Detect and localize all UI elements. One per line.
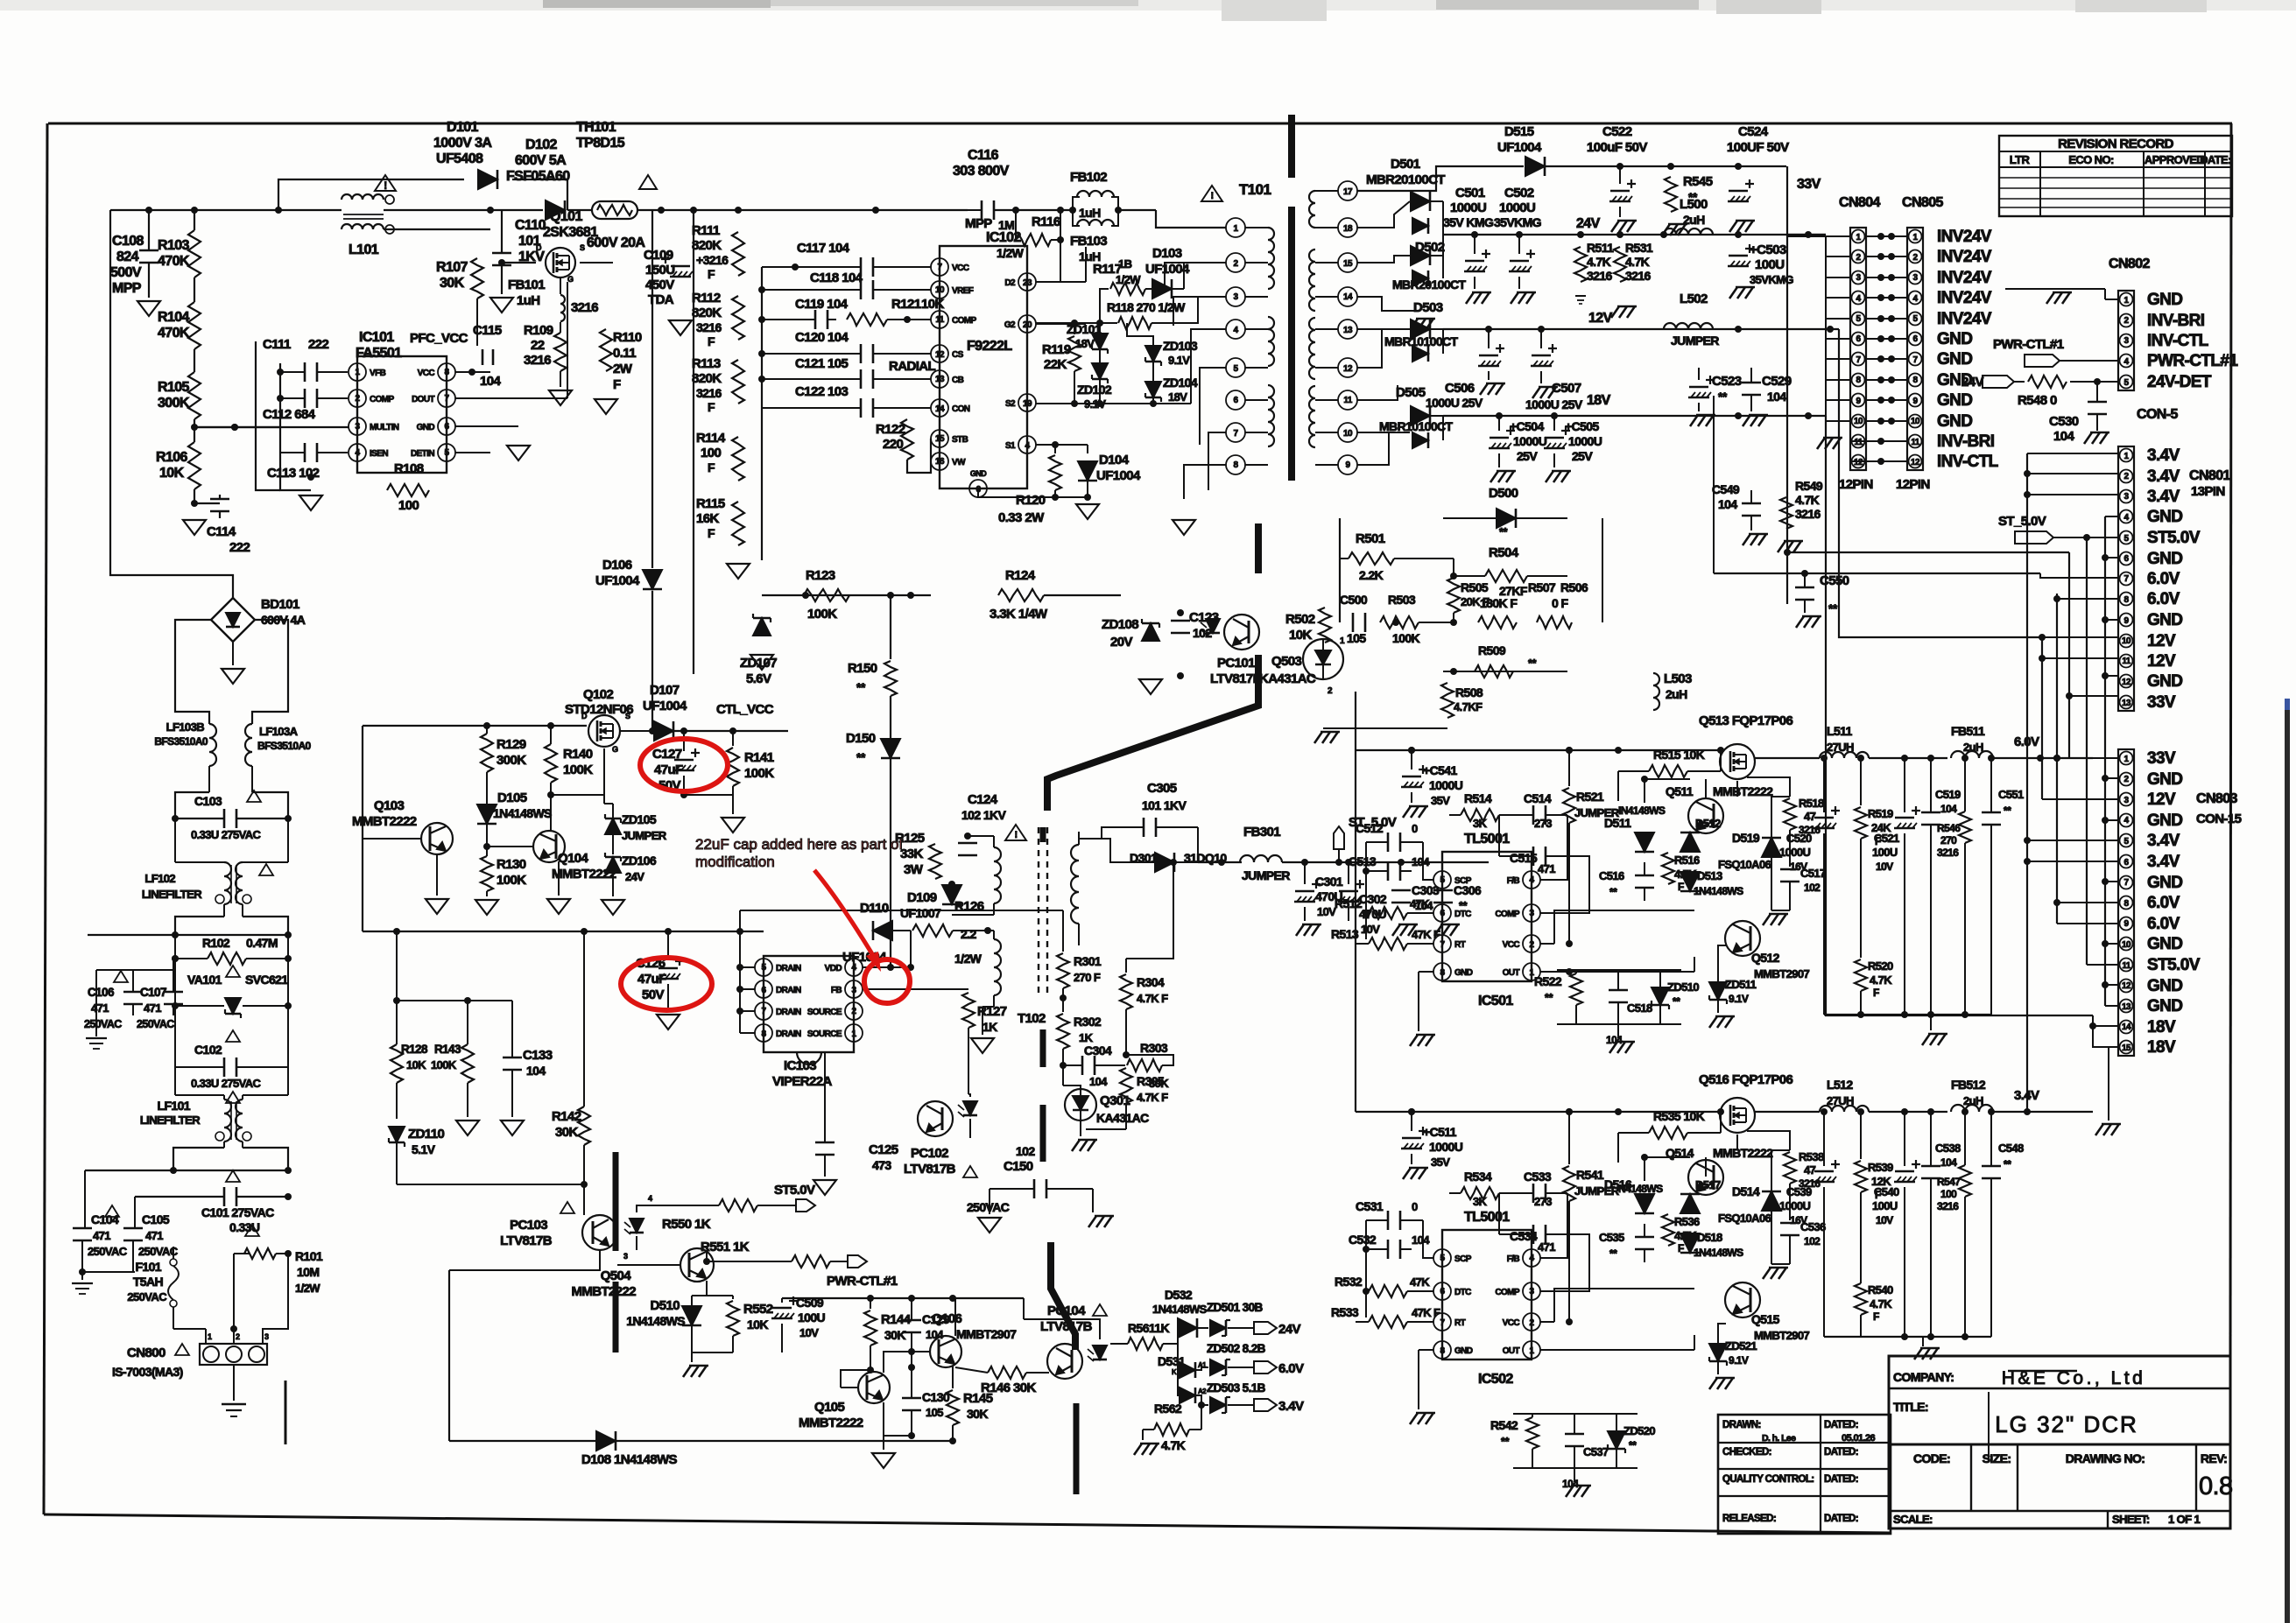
svg-text:R549: R549: [1795, 479, 1823, 493]
svg-text:C548: C548: [1998, 1142, 2024, 1155]
svg-text:3.4V: 3.4V: [1278, 1399, 1304, 1414]
wire S2 row: [1036, 400, 1191, 407]
svg-text:F: F: [613, 377, 621, 392]
svg-text:0.8: 0.8: [2199, 1472, 2233, 1500]
svg-text:R105: R105: [158, 380, 190, 395]
svg-text:INV-BRI: INV-BRI: [1937, 432, 1995, 451]
svg-text:12: 12: [1854, 458, 1863, 467]
svg-text:1KV: 1KV: [518, 249, 545, 264]
capacitor C130 105: [902, 1367, 950, 1436]
svg-text:**: **: [856, 680, 866, 694]
resistor R534 3K: [1449, 1170, 1499, 1208]
resistor R513 47K F: [1331, 927, 1440, 950]
svg-text:C520: C520: [1786, 832, 1812, 845]
svg-text:25V: 25V: [1572, 449, 1593, 463]
svg-text:C524: C524: [1738, 124, 1769, 139]
svg-text:104: 104: [1412, 1233, 1430, 1247]
transformer T102 secondary: [1071, 832, 1079, 945]
svg-text:LTV817B: LTV817B: [904, 1162, 956, 1177]
svg-text:Q515: Q515: [1751, 1312, 1780, 1326]
svg-text:100U: 100U: [1755, 257, 1784, 272]
ground T101 pin14: [1410, 311, 1435, 330]
svg-text:R542: R542: [1490, 1418, 1518, 1432]
wire BD legs: [175, 620, 288, 724]
svg-text:G2: G2: [1004, 320, 1016, 330]
svg-text:**: **: [1718, 390, 1728, 404]
svg-text:MPP: MPP: [965, 216, 992, 231]
svg-text:1 OF 1: 1 OF 1: [2168, 1513, 2201, 1526]
svg-text:R562: R562: [1154, 1402, 1182, 1416]
svg-text:R110: R110: [613, 330, 642, 345]
svg-text:C302: C302: [1359, 892, 1387, 906]
IC IC103 VIPER22A: [755, 956, 863, 1089]
inductor FB101 1uH: [508, 278, 598, 333]
wire Q504 collector: [703, 1250, 710, 1265]
svg-text:DRAIN: DRAIN: [776, 964, 801, 973]
CN803 label 18V pin15: [2147, 1038, 2176, 1057]
resistor R501 2.2K: [1340, 518, 1454, 622]
svg-text:R508: R508: [1455, 685, 1483, 699]
svg-text:R518: R518: [1799, 797, 1824, 810]
diode D515 UF1004: [1497, 124, 1623, 176]
svg-text:R521: R521: [1576, 790, 1604, 804]
svg-text:16: 16: [935, 457, 945, 467]
svg-text:BFS3510A0: BFS3510A0: [257, 740, 312, 752]
svg-text:ECO NO:: ECO NO:: [2068, 153, 2114, 166]
wire T101 pin17 top rail: [1357, 190, 1436, 192]
svg-text:102: 102: [1804, 1235, 1821, 1247]
svg-text:47uF: 47uF: [654, 762, 683, 777]
label N4148WS Q514 area: [1618, 1183, 1663, 1195]
svg-text:1N4148WS: 1N4148WS: [1152, 1303, 1208, 1316]
svg-text:G: G: [567, 275, 574, 284]
wire 18V vertical: [1826, 416, 2118, 1047]
svg-text:COMP: COMP: [1495, 910, 1520, 919]
svg-text:!: !: [1210, 191, 1213, 201]
wire C305 right: [1197, 861, 1199, 863]
svg-text:C538: C538: [1935, 1142, 1961, 1155]
resistor R504 27KF: [1454, 545, 1567, 598]
svg-text:C107: C107: [140, 986, 166, 999]
svg-text:DETIN: DETIN: [411, 449, 434, 459]
svg-text:L502: L502: [1680, 292, 1708, 306]
svg-text:D511: D511: [1604, 816, 1631, 830]
transistor Q301 KA431AC: [1063, 1086, 1149, 1125]
transistor Q515 MMBT2907: [1725, 1282, 1809, 1342]
ground IC501: [1410, 1035, 1435, 1046]
capacitor C549 104: [1712, 473, 1768, 545]
wire PFC_VCC: [410, 323, 512, 389]
svg-text:**: **: [1609, 886, 1617, 898]
capacitor C519 104: [1921, 758, 1961, 1015]
connector CN804: [1839, 195, 1881, 492]
svg-text:104: 104: [526, 1064, 546, 1078]
wire IC502 OUT: [1540, 1335, 1694, 1350]
svg-text:13PIN: 13PIN: [2191, 484, 2225, 499]
svg-text:6.0V: 6.0V: [2147, 590, 2180, 608]
svg-text:104: 104: [1089, 1075, 1108, 1088]
inductor LF103B BFS3510A0: [154, 720, 216, 792]
resistor R119 22K: [1042, 323, 1081, 404]
svg-text:3: 3: [623, 1252, 628, 1261]
svg-text:F: F: [1873, 987, 1879, 999]
capacitor C105 471 250VAC: [123, 1212, 179, 1272]
wire T101 pin17: [1357, 166, 1524, 191]
svg-text:1000U 25V: 1000U 25V: [1426, 396, 1483, 410]
svg-text:+C503: +C503: [1750, 242, 1786, 257]
svg-text:LF102: LF102: [144, 872, 175, 885]
svg-text:ZD110: ZD110: [408, 1127, 444, 1142]
capacitor C109 150U 450V TDA: [644, 210, 693, 315]
svg-text:R519: R519: [1868, 807, 1893, 820]
svg-text:UF1004: UF1004: [643, 699, 687, 713]
capacitor C303 104: [1391, 859, 1440, 936]
svg-text:FA5501: FA5501: [356, 346, 402, 361]
svg-text:L511: L511: [1827, 724, 1853, 738]
svg-text:0.47M: 0.47M: [246, 936, 278, 950]
svg-text:C549: C549: [1712, 482, 1740, 496]
CN801 label GND pin4: [2147, 508, 2182, 526]
resistor R552 10K: [707, 1296, 773, 1352]
ground IC101 gnd: [507, 446, 530, 460]
zener ZD520 **: [1608, 1414, 1655, 1468]
svg-text:CON-15: CON-15: [2196, 811, 2242, 826]
svg-text:D531: D531: [1158, 1354, 1186, 1368]
svg-text:3.3K 1/4W: 3.3K 1/4W: [990, 607, 1048, 622]
resistor R545 **: [1662, 166, 1713, 235]
capacitor C122 103: [762, 384, 931, 418]
wire Q105 base: [0, 0, 1, 1]
diode D106 UF1004: [595, 558, 662, 734]
capacitor C124 102 1KV: [958, 792, 1007, 884]
svg-text:24V: 24V: [1961, 375, 1983, 390]
svg-text:47K F: 47K F: [1412, 928, 1440, 941]
CN803 label 3.4V pin6: [2147, 853, 2180, 871]
CN803 label 33V pin1: [2147, 749, 2176, 768]
svg-text:10V: 10V: [1876, 861, 1893, 873]
wire VDD node: [863, 811, 914, 981]
capacitor C507 1000U 25V: [1525, 329, 1583, 411]
svg-text:R301: R301: [1074, 954, 1102, 968]
wire Q106 emitter: [946, 1298, 955, 1367]
transformer T102 primary upper: [994, 836, 1046, 1026]
svg-text:D102: D102: [525, 137, 558, 152]
svg-text:R115: R115: [696, 496, 725, 511]
transistor Q512 MMBT2907: [1725, 921, 1809, 980]
svg-text:101 1KV: 101 1KV: [1142, 798, 1187, 812]
wire GND vertical: [2102, 516, 2118, 1006]
CN801 label 3.4V pin3: [2147, 488, 2180, 506]
svg-text:LF103B: LF103B: [166, 720, 205, 734]
capacitor C518 104: [1606, 970, 1652, 1046]
zener ZD110 5.1V: [389, 1127, 444, 1184]
svg-text:12: 12: [1911, 458, 1920, 467]
svg-text:FB512: FB512: [1951, 1078, 1986, 1092]
svg-text:R111: R111: [692, 223, 720, 238]
wire T101 pin15: [1357, 256, 1410, 263]
svg-text:R501: R501: [1356, 531, 1385, 546]
resistor R542 **: [1490, 1414, 1539, 1468]
svg-text:R507: R507: [1528, 580, 1556, 594]
svg-text:10: 10: [1343, 429, 1353, 439]
svg-text:PWR-CTL#1: PWR-CTL#1: [827, 1274, 898, 1289]
resistor R505 20K F: [1447, 559, 1490, 622]
svg-text:R109: R109: [524, 323, 553, 338]
svg-text:QUALITY CONTROL:: QUALITY CONTROL:: [1722, 1474, 1814, 1485]
svg-text:CN803: CN803: [2196, 791, 2238, 806]
CN802 label 24V-DET: [2147, 373, 2212, 391]
svg-text:0 F: 0 F: [1552, 596, 1568, 610]
transistor Q514 MMBT2222: [1666, 1146, 1773, 1195]
svg-text:24V: 24V: [625, 870, 644, 883]
svg-text:N4148WS: N4148WS: [1618, 1183, 1663, 1195]
stray mark line: [285, 1381, 287, 1444]
svg-text:R520: R520: [1868, 959, 1893, 973]
zener ZD106 24V: [605, 853, 657, 896]
svg-text:TH101: TH101: [576, 120, 616, 135]
svg-text:LTV817B: LTV817B: [500, 1233, 553, 1248]
svg-text:ZD104: ZD104: [1163, 376, 1198, 390]
svg-text:19: 19: [1023, 399, 1032, 409]
svg-text:18V: 18V: [2147, 1038, 2176, 1057]
diode D105 1N4148WS: [477, 790, 552, 854]
svg-text:22: 22: [531, 338, 545, 353]
svg-text:**: **: [1528, 657, 1537, 670]
svg-text:MMBT2222: MMBT2222: [352, 814, 417, 829]
diode D103 UF1004: [1145, 246, 1190, 299]
svg-text:R509: R509: [1478, 643, 1506, 657]
revision record table: [1999, 136, 2232, 216]
svg-text:R130: R130: [497, 857, 526, 872]
svg-text:101: 101: [518, 234, 541, 249]
svg-text:INV-BRI: INV-BRI: [2147, 312, 2205, 330]
resistor R518 47 3216: [1747, 777, 1824, 867]
isolation bar PC103 lower: [613, 1282, 619, 1352]
svg-text:1000U: 1000U: [1779, 1199, 1811, 1212]
svg-text:GND: GND: [2147, 550, 2182, 568]
diode D109 UF1007: [900, 881, 994, 920]
resistor R118 270 1/2W: [1100, 300, 1186, 329]
svg-text:35VKMG: 35VKMG: [1750, 273, 1793, 286]
svg-text:1000U: 1000U: [1513, 434, 1547, 448]
ground R141: [722, 818, 744, 833]
flag PWR-CTL#1 (CN802): [1993, 337, 2118, 367]
svg-text:VCC: VCC: [1503, 1318, 1520, 1328]
svg-text:R511: R511: [1587, 241, 1614, 255]
ground C113: [299, 477, 322, 510]
svg-text:1000U: 1000U: [1779, 846, 1811, 859]
svg-text:STD12NF06: STD12NF06: [565, 702, 633, 717]
svg-text:0.33U 275VAC: 0.33U 275VAC: [191, 1077, 261, 1090]
svg-text:R546: R546: [1937, 822, 1961, 834]
transistor Q516 FQP17P06: [1699, 1072, 1793, 1133]
isolation bar PC104: [1074, 1403, 1080, 1494]
svg-text:1000U: 1000U: [1499, 200, 1535, 215]
resistor R109 22 3216: [524, 323, 567, 371]
svg-text:15: 15: [935, 434, 945, 444]
diode D301 31DQ10: [1130, 851, 1227, 872]
svg-text:24V: 24V: [1576, 216, 1601, 231]
svg-text:3216: 3216: [696, 386, 722, 400]
svg-text:OUT: OUT: [1503, 1346, 1520, 1356]
svg-text:GND: GND: [1454, 968, 1473, 978]
svg-text:T102: T102: [1018, 1011, 1046, 1026]
wire PC104 to Q301 node: [0, 0, 1, 1]
svg-text:250VAC: 250VAC: [138, 1245, 179, 1258]
svg-text:R304: R304: [1137, 975, 1165, 989]
svg-text:C305: C305: [1147, 781, 1177, 796]
svg-text:104: 104: [480, 374, 501, 389]
svg-text:D110: D110: [860, 901, 889, 916]
svg-text:4.7K: 4.7K: [1625, 255, 1650, 269]
diode D510 1N4148WS: [626, 1296, 701, 1352]
svg-text:4.7K: 4.7K: [1795, 493, 1820, 507]
svg-text:CS: CS: [952, 350, 964, 360]
isolation bar below T102: [1051, 1242, 1075, 1350]
svg-text:30K: 30K: [1149, 1077, 1169, 1090]
wire 33V down: [1786, 166, 1788, 604]
svg-text:1uH: 1uH: [517, 293, 540, 308]
svg-text:SIZE:: SIZE:: [1983, 1451, 2011, 1465]
svg-text:12V: 12V: [2147, 632, 2176, 650]
resistor R521 JUMPER: [1563, 747, 1620, 823]
diode D501 MBR20100CT: [1366, 157, 1445, 235]
resistor R511 4.7K 3216: [1574, 235, 1614, 304]
svg-text:104: 104: [1718, 497, 1737, 511]
svg-text:0.33U: 0.33U: [229, 1220, 260, 1234]
svg-text:2uH: 2uH: [1963, 741, 1983, 754]
svg-text:RT: RT: [1454, 940, 1466, 950]
svg-text:CON: CON: [952, 404, 970, 414]
isolation bar T101 core: [1288, 207, 1295, 481]
svg-text:273: 273: [1534, 1195, 1552, 1208]
resistor R509 **: [1475, 643, 1537, 678]
thermistor TH101 TP8D15: [567, 120, 674, 219]
zener ZD103 9.1V: [1127, 323, 1198, 367]
wire return 1159: [1824, 1011, 1991, 1018]
svg-text:C112 684: C112 684: [263, 407, 316, 422]
wire R128 top: [393, 931, 512, 1004]
svg-text:F: F: [708, 400, 715, 414]
svg-text:2W: 2W: [613, 362, 633, 376]
capacitor C530 104: [2049, 382, 2109, 444]
svg-text:C119 104: C119 104: [795, 297, 849, 312]
svg-text:30K: 30K: [884, 1328, 905, 1342]
wire T101 pin3: [1178, 297, 1226, 323]
svg-text:6.0V: 6.0V: [1278, 1361, 1304, 1376]
svg-text:2.2: 2.2: [961, 927, 976, 941]
svg-text:COMPANY:: COMPANY:: [1893, 1370, 1954, 1384]
CN803 label 6.0V pin9: [2147, 915, 2180, 933]
wire vbus 792: [693, 210, 694, 674]
resistor R304 4.7K F: [1120, 859, 1177, 1058]
svg-text:+C504: +C504: [1510, 419, 1544, 433]
svg-text:**: **: [1609, 1247, 1617, 1260]
CN801 label 6.0V pin8: [2147, 590, 2180, 608]
CN802 CON-5 label: [2137, 407, 2178, 422]
resistor R562 4.7K: [1143, 1402, 1201, 1452]
resistor R129 300K: [481, 726, 526, 804]
red circle C126: [621, 958, 712, 1010]
svg-text:10: 10: [935, 285, 945, 295]
svg-text:S2: S2: [1005, 399, 1016, 409]
inductor LF103A BFS3510A0: [245, 724, 312, 792]
resistor R520 4.7K F: [1855, 959, 1893, 1015]
resistor R516 4.7K F: [1662, 853, 1700, 893]
svg-text:C513: C513: [1349, 854, 1377, 868]
diode D532 1N4148WS: [1152, 1288, 1208, 1344]
svg-text:47K: 47K: [1410, 897, 1430, 910]
capacitor C126 47uF 50V: [636, 931, 684, 1011]
svg-text:T5AH: T5AH: [133, 1275, 164, 1289]
svg-text:R505: R505: [1461, 580, 1489, 594]
svg-text:CON-5: CON-5: [2137, 407, 2178, 422]
svg-text:100K: 100K: [1392, 631, 1420, 645]
svg-text:12: 12: [2122, 678, 2131, 687]
resistor R512 47K: [1335, 896, 1433, 919]
resistor R507 180K F: [1454, 596, 1534, 629]
capacitor C113 102: [267, 443, 348, 481]
svg-text:C551: C551: [1998, 788, 2024, 801]
svg-text:VA101: VA101: [187, 973, 222, 987]
ground Q105: [872, 1436, 895, 1468]
resistor R514 3K: [1449, 791, 1499, 830]
svg-text:6.0V: 6.0V: [2147, 570, 2180, 588]
svg-text:PWR-CTL#1: PWR-CTL#1: [2147, 352, 2238, 370]
svg-text:100U: 100U: [1872, 846, 1898, 859]
svg-text:14: 14: [935, 404, 945, 414]
transistor Q511 MMBT2222: [1666, 784, 1773, 833]
diode D511: [1604, 816, 1654, 852]
wire left drop: [109, 210, 111, 263]
svg-text:35V: 35V: [1431, 1156, 1450, 1169]
wire GND pin: [455, 426, 518, 442]
capacitor C116 303 800V: [953, 148, 1073, 231]
svg-text:VCC: VCC: [952, 263, 969, 273]
svg-text:3.4V: 3.4V: [2147, 853, 2180, 871]
svg-text:100: 100: [398, 498, 419, 513]
svg-text:ZD501 30B: ZD501 30B: [1207, 1301, 1263, 1314]
capacitor C506 1000U 25V: [1426, 329, 1505, 410]
zener ZD107 5.6V: [740, 595, 777, 686]
svg-text:CN802: CN802: [2109, 256, 2151, 271]
CN801 label 33V pin13: [2147, 693, 2176, 712]
svg-text:303 800V: 303 800V: [953, 164, 1010, 179]
capacitor C515 471: [1449, 815, 1567, 875]
resistor R150 **: [848, 592, 897, 738]
diode D102 600V 5A FSF05A60: [506, 137, 570, 220]
ground C126: [657, 1015, 680, 1029]
optocoupler PC102 wires: [0, 0, 1, 1]
svg-text:D501: D501: [1391, 157, 1420, 172]
svg-text:SOURCE: SOURCE: [807, 1008, 842, 1017]
svg-text:VCC: VCC: [418, 369, 435, 378]
capacitor C520 1000U 16V: [1779, 758, 1840, 1015]
svg-text:DRAIN: DRAIN: [776, 1008, 801, 1017]
ST_5.0V net: [1334, 815, 1489, 866]
ground IC502: [1410, 1413, 1435, 1424]
wire T101 pin4: [1086, 329, 1226, 392]
capacitor C108: [110, 210, 158, 298]
ground C106: [86, 1033, 107, 1049]
capacitor C306 **: [1433, 880, 1482, 936]
svg-text:1N4148WS: 1N4148WS: [493, 806, 552, 820]
resistor R142 30K: [552, 931, 590, 1215]
diode D500: [1443, 486, 1567, 538]
CN801 label 3.4V pin1: [2147, 446, 2180, 465]
svg-text:F: F: [1873, 1310, 1879, 1323]
zener ZD510 **: [1652, 970, 1699, 1024]
